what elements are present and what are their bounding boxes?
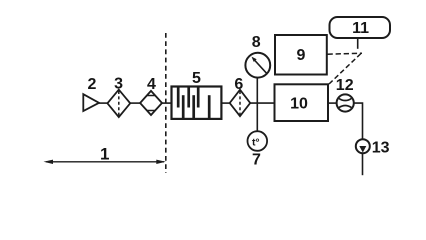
stub wire 11 to junction — [357, 38, 359, 49]
wire 2-3 — [99, 102, 108, 104]
svg-text:4: 4 — [147, 76, 156, 93]
svg-text:3: 3 — [114, 76, 123, 93]
wire 3-4 — [130, 102, 140, 104]
box 10 — [275, 84, 329, 121]
dashed link 9 to 11 — [328, 53, 363, 54]
triangle 2 — [83, 94, 99, 111]
svg-text:12: 12 — [336, 77, 354, 94]
thermometer 7 — [247, 131, 267, 151]
svg-text:10: 10 — [290, 95, 308, 112]
dryer diamond 4 — [140, 91, 162, 115]
wire 12 to 13 — [354, 103, 363, 139]
dryer unit rect 5 — [172, 87, 222, 119]
wire 6-10 — [250, 102, 275, 104]
svg-text:6: 6 — [234, 76, 243, 93]
wire 4-5 — [162, 102, 172, 104]
filter diamond 6 — [230, 90, 251, 117]
wire below 13 — [362, 153, 364, 175]
svg-text:t°: t° — [252, 137, 260, 149]
dashed link 10 to 11 — [329, 52, 362, 84]
drain 13 — [356, 139, 370, 153]
svg-text:8: 8 — [252, 34, 261, 51]
dimension line 1 — [44, 160, 166, 164]
svg-text:11: 11 — [352, 20, 369, 37]
svg-text:13: 13 — [372, 139, 390, 156]
filter diamond 3 — [107, 90, 130, 118]
boundary dashed line — [165, 33, 167, 173]
box 9 — [275, 35, 327, 75]
branch wire to gauge and thermometer — [256, 78, 258, 132]
svg-text:7: 7 — [252, 152, 261, 169]
svg-text:5: 5 — [192, 70, 201, 87]
wire 5-6 — [221, 102, 229, 104]
svg-text:2: 2 — [88, 76, 97, 93]
wire 10-12 — [328, 102, 337, 104]
svg-text:9: 9 — [297, 47, 306, 64]
flow meter 12 — [337, 94, 354, 111]
pressure gauge 8 — [245, 53, 270, 78]
svg-text:1: 1 — [100, 144, 109, 163]
box 11 — [330, 17, 391, 38]
